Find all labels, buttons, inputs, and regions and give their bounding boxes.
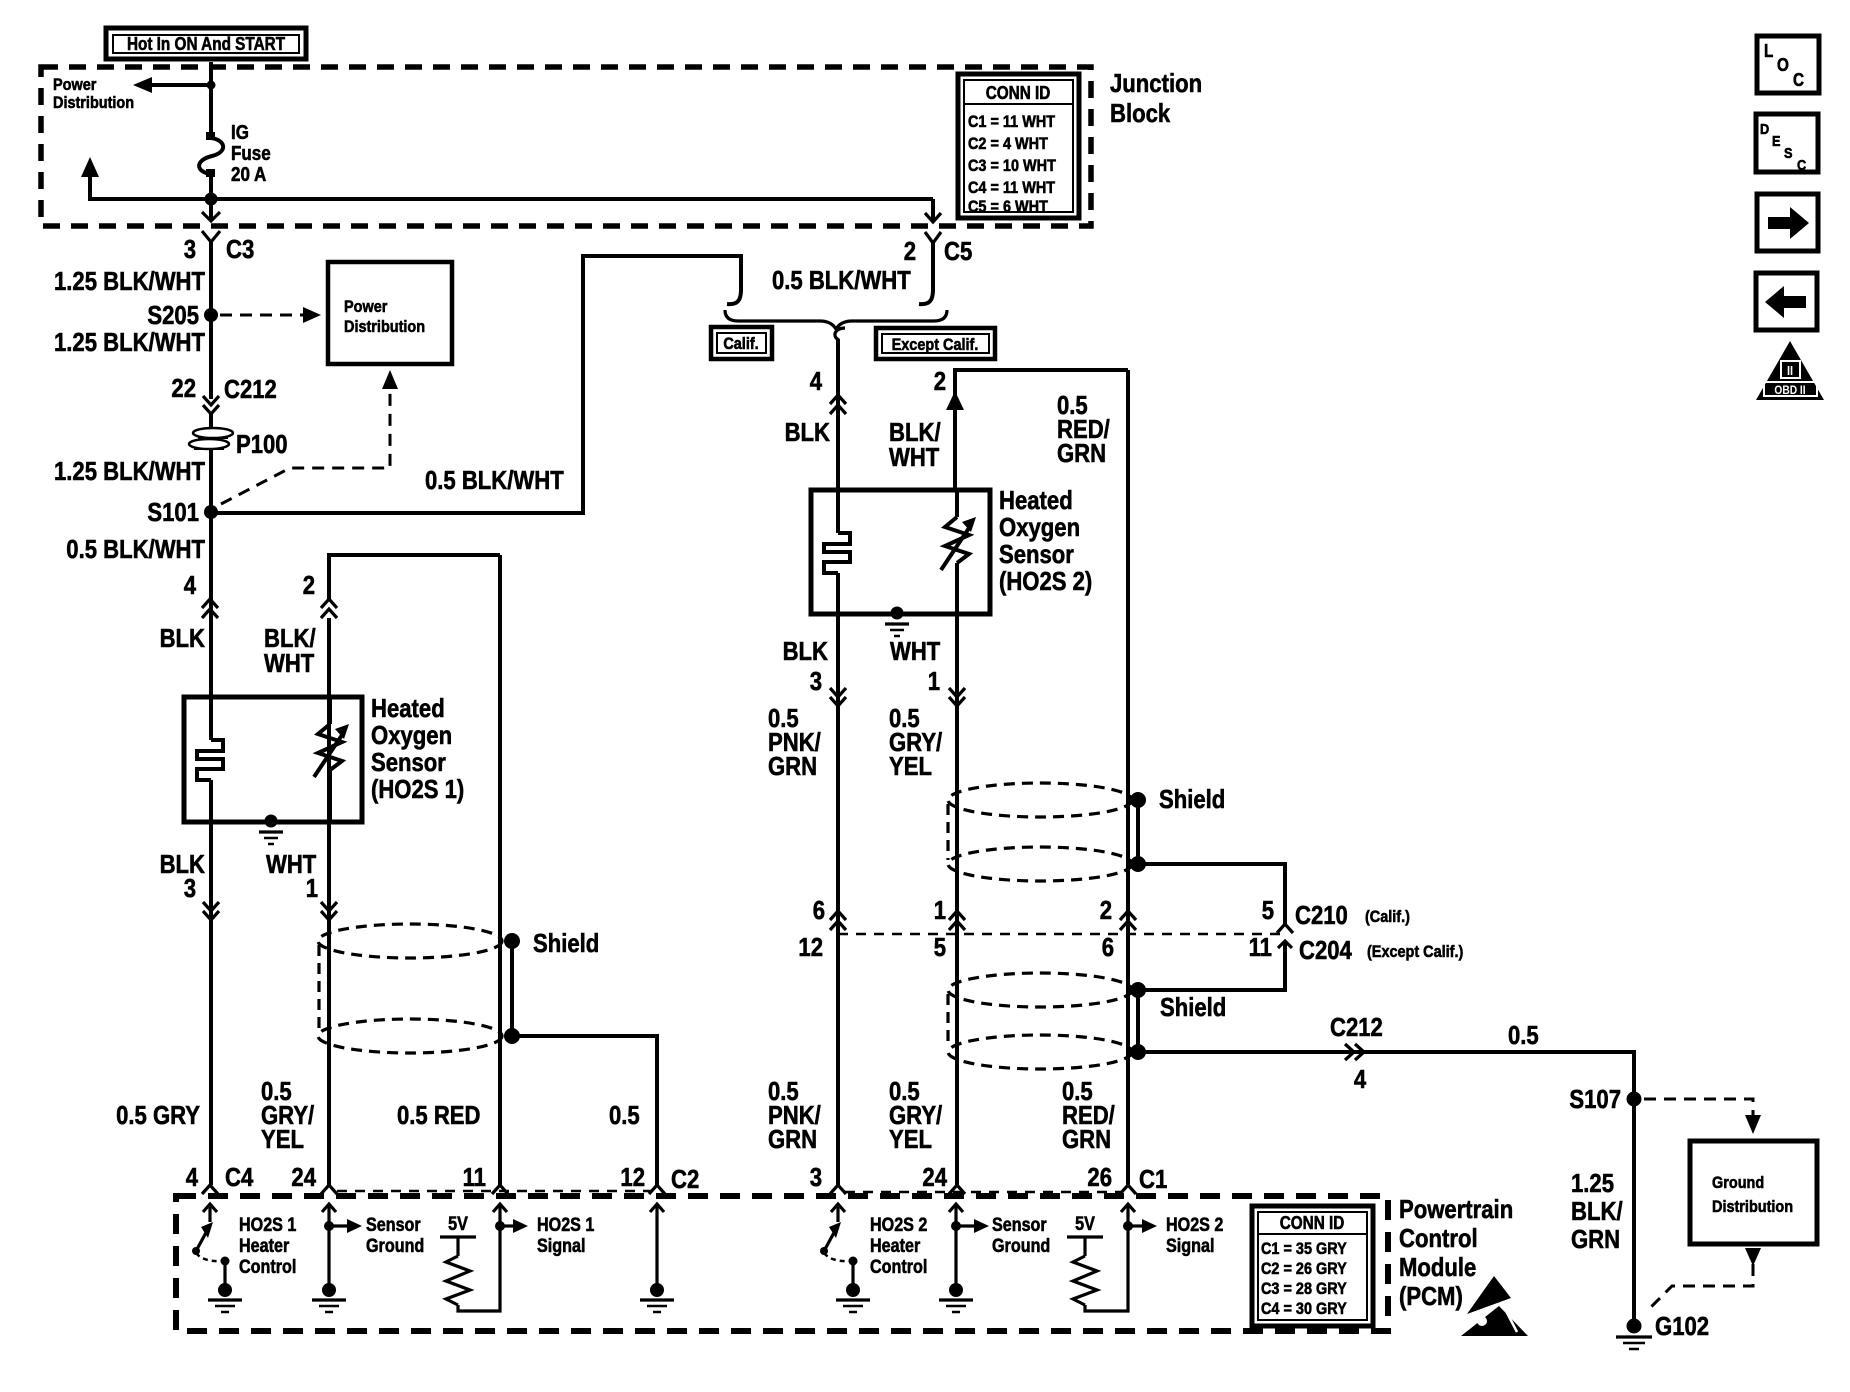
- svg-text:S: S: [1784, 145, 1793, 162]
- dashed reference path S101 up to Power Distribution box: [221, 388, 390, 504]
- svg-text:Except Calif.: Except Calif.: [892, 335, 979, 354]
- shield cylinder (HO2S1): [318, 924, 502, 958]
- sensor internal ground (HO2S1): [265, 815, 278, 828]
- svg-text:Sensor: Sensor: [371, 747, 446, 777]
- svg-text:1: 1: [934, 895, 946, 925]
- svg-text:Shield: Shield: [1159, 784, 1225, 814]
- svg-text:O: O: [1777, 55, 1789, 75]
- icon back arrow: [1756, 273, 1817, 330]
- connector C5 pin 2: [925, 232, 941, 243]
- svg-text:GRN: GRN: [768, 1124, 817, 1154]
- svg-text:WHT: WHT: [889, 442, 939, 472]
- svg-text:BLK: BLK: [783, 636, 829, 666]
- svg-text:WHT: WHT: [890, 636, 940, 666]
- svg-text:HO2S 1: HO2S 1: [537, 1215, 595, 1236]
- svg-text:Control: Control: [239, 1257, 296, 1278]
- svg-text:0.5: 0.5: [609, 1100, 640, 1130]
- ESD sensitive symbol: [1467, 1276, 1511, 1314]
- svg-text:GRN: GRN: [1057, 438, 1106, 468]
- icon LOC: [1757, 36, 1819, 93]
- svg-text:Ground: Ground: [1712, 1173, 1764, 1192]
- svg-text:24: 24: [291, 1162, 316, 1192]
- svg-text:Hot In ON And START: Hot In ON And START: [127, 34, 285, 54]
- sensor internal ground (HO2S2): [891, 607, 904, 620]
- shield drain dots and link (HO2S2 lower): [1130, 982, 1146, 998]
- splice S101: [204, 505, 218, 519]
- ground (HO2S1 heater control): [218, 1283, 232, 1297]
- svg-text:HO2S 2: HO2S 2: [1166, 1215, 1223, 1236]
- sensor box HO2S1: [184, 697, 362, 822]
- svg-text:GRN: GRN: [1062, 1124, 1111, 1154]
- wire HO2S1 pin3 down to PCM pin 4: [209, 822, 213, 1185]
- svg-text:0.5: 0.5: [1508, 1020, 1539, 1050]
- svg-text:C212: C212: [224, 374, 277, 404]
- wire brace to HO2S2 pin 4: [836, 339, 840, 490]
- svg-text:Heated: Heated: [371, 693, 445, 723]
- svg-text:Ground: Ground: [366, 1236, 424, 1257]
- svg-text:C204: C204: [1299, 935, 1352, 965]
- svg-text:20 A: 20 A: [231, 164, 266, 186]
- svg-text:1.25 BLK/WHT: 1.25 BLK/WHT: [54, 456, 205, 486]
- svg-text:Control: Control: [1399, 1223, 1478, 1253]
- svg-text:5: 5: [934, 932, 946, 962]
- switch HO2S2 heater control: [824, 1229, 836, 1251]
- splice S107: [1627, 1092, 1642, 1107]
- svg-text:C5 = 6 WHT: C5 = 6 WHT: [968, 197, 1048, 216]
- svg-text:GRN: GRN: [1571, 1224, 1620, 1254]
- svg-text:22: 22: [171, 373, 196, 403]
- svg-text:Sensor: Sensor: [992, 1215, 1047, 1236]
- svg-text:Heater: Heater: [239, 1236, 290, 1257]
- svg-text:C1: C1: [1139, 1164, 1167, 1194]
- svg-text:Distribution: Distribution: [344, 317, 425, 336]
- svg-text:Junction: Junction: [1110, 68, 1202, 98]
- svg-text:C1 = 11 WHT: C1 = 11 WHT: [968, 112, 1056, 131]
- junction block dashed boundary: [41, 67, 1091, 226]
- dashed reference S107 to Ground Distribution: [1644, 1099, 1753, 1116]
- svg-text:Calif.: Calif.: [723, 334, 758, 353]
- svg-text:Sensor: Sensor: [999, 539, 1074, 569]
- wire 0.5 RED run down to PCM pin 11: [498, 555, 502, 1185]
- box Ground Distribution: [1690, 1141, 1817, 1244]
- internal up arrows below PCM boundary: [203, 1204, 1135, 1284]
- svg-text:(PCM): (PCM): [1399, 1281, 1463, 1311]
- svg-text:Ground: Ground: [992, 1236, 1050, 1257]
- svg-text:GRN: GRN: [768, 751, 817, 781]
- svg-text:2: 2: [904, 236, 916, 266]
- svg-text:3: 3: [810, 1162, 822, 1192]
- wire C204 pin 11 down to lower shield: [1278, 941, 1292, 948]
- svg-text:Powertrain: Powertrain: [1399, 1194, 1513, 1224]
- svg-text:Heater: Heater: [870, 1236, 921, 1257]
- svg-text:1.25 BLK/WHT: 1.25 BLK/WHT: [54, 266, 205, 296]
- arrow to Power Distribution (left): [152, 83, 211, 87]
- svg-text:BLK: BLK: [785, 417, 831, 447]
- heater element (HO2S1): [209, 697, 213, 740]
- svg-text:BLK: BLK: [160, 623, 206, 653]
- shield cylinder (HO2S2 upper): [948, 783, 1132, 817]
- junction block exit arrow to C5: [931, 199, 935, 221]
- svg-text:6: 6: [1102, 932, 1114, 962]
- svg-text:Power: Power: [344, 297, 388, 316]
- svg-text:C210: C210: [1295, 900, 1348, 930]
- dashed reference arrow S205 to Power Distribution: [220, 314, 303, 317]
- shield drain dots and link (HO2S2 upper): [1130, 792, 1146, 808]
- wire HO2S2 pin3 down: [836, 614, 840, 1185]
- svg-text:Heated: Heated: [999, 485, 1073, 515]
- svg-text:12: 12: [798, 932, 823, 962]
- svg-text:Shield: Shield: [533, 928, 599, 958]
- svg-text:YEL: YEL: [889, 1124, 932, 1154]
- svg-text:5V: 5V: [1075, 1214, 1095, 1235]
- sensor box HO2S2: [811, 490, 990, 614]
- svg-text:Control: Control: [870, 1257, 927, 1278]
- svg-text:4: 4: [810, 366, 823, 396]
- svg-text:1.25 BLK/WHT: 1.25 BLK/WHT: [54, 327, 205, 357]
- svg-text:12: 12: [620, 1162, 645, 1192]
- svg-text:CONN ID: CONN ID: [1280, 1213, 1345, 1233]
- svg-text:YEL: YEL: [261, 1124, 304, 1154]
- svg-text:Shield: Shield: [1160, 992, 1226, 1022]
- svg-text:4: 4: [186, 1162, 199, 1192]
- svg-text:1.25: 1.25: [1571, 1168, 1614, 1198]
- svg-text:3: 3: [184, 234, 196, 264]
- wire from Hot tag down to fuse: [209, 62, 213, 136]
- wire shield to C210 pin 5: [1138, 864, 1285, 924]
- svg-text:Sensor: Sensor: [366, 1215, 421, 1236]
- wire loop HO2S1 pin2 over to 0.5 RED run: [329, 555, 500, 600]
- svg-text:C4 = 30 GRY: C4 = 30 GRY: [1261, 1299, 1347, 1318]
- svg-text:Block: Block: [1110, 98, 1171, 128]
- svg-text:24: 24: [922, 1162, 947, 1192]
- wire shield drain to S107: [1138, 1052, 1634, 1326]
- junction dot at fuse output: [205, 193, 218, 206]
- svg-text:4: 4: [1354, 1064, 1367, 1094]
- up arrow stub (power distribution feed): [81, 157, 99, 177]
- svg-text:3: 3: [184, 873, 196, 903]
- svg-text:0.5 RED: 0.5 RED: [397, 1100, 481, 1130]
- svg-text:OBD II: OBD II: [1774, 383, 1805, 397]
- svg-text:D: D: [1760, 121, 1769, 138]
- svg-text:5: 5: [1262, 895, 1274, 925]
- svg-text:HO2S 2: HO2S 2: [870, 1215, 927, 1236]
- wire P100 to S101: [209, 450, 213, 512]
- svg-text:5V: 5V: [448, 1214, 468, 1235]
- svg-text:2: 2: [1100, 895, 1112, 925]
- svg-text:S107: S107: [1569, 1084, 1621, 1114]
- svg-text:C5: C5: [944, 236, 972, 266]
- svg-text:BLK/: BLK/: [1571, 1196, 1623, 1226]
- splice S205: [204, 308, 218, 322]
- wire Except Calif corner to RED/GRN run: [955, 370, 1128, 412]
- dashed reference Ground Distribution to G102: [1745, 1248, 1761, 1266]
- svg-text:P100: P100: [236, 429, 288, 459]
- connector row C210/C204 dashed line: [838, 933, 1288, 936]
- svg-text:YEL: YEL: [889, 751, 932, 781]
- svg-text:WHT: WHT: [264, 648, 314, 678]
- svg-text:(Calif.): (Calif.): [1365, 907, 1410, 926]
- wire down to C3 with exit arrow: [209, 199, 213, 220]
- svg-text:4: 4: [184, 570, 197, 600]
- svg-text:C2 = 4 WHT: C2 = 4 WHT: [968, 134, 1048, 153]
- fuse IG Fuse 20 A: [206, 132, 215, 140]
- variant tag Calif.: [711, 327, 772, 359]
- svg-text:Power: Power: [53, 75, 97, 94]
- PCM connector face dashed lines: [337, 1190, 651, 1193]
- connector C3 pin 3: [202, 231, 220, 242]
- svg-text:11: 11: [1249, 932, 1272, 962]
- svg-text:C4 = 11 WHT: C4 = 11 WHT: [968, 178, 1056, 197]
- svg-text:(HO2S 2): (HO2S 2): [999, 566, 1092, 596]
- wire S101 branch right and up over to Calif hook: [211, 256, 741, 513]
- svg-text:3: 3: [810, 666, 822, 696]
- svg-text:C3 = 28 GRY: C3 = 28 GRY: [1261, 1279, 1347, 1298]
- sensor ground branch (pin 24 left): [324, 1221, 334, 1231]
- svg-text:0.5 BLK/WHT: 0.5 BLK/WHT: [425, 465, 564, 495]
- svg-text:(HO2S 1): (HO2S 1): [371, 774, 464, 804]
- icon OBD II triangle: [1756, 341, 1824, 400]
- PCM dashed boundary: [176, 1196, 1388, 1331]
- svg-text:Signal: Signal: [537, 1236, 586, 1257]
- svg-text:(Except Calif.): (Except Calif.): [1367, 942, 1463, 961]
- svg-text:Distribution: Distribution: [53, 93, 134, 112]
- svg-text:Fuse: Fuse: [231, 143, 271, 165]
- svg-text:C212: C212: [1330, 1012, 1383, 1042]
- svg-text:0.5 BLK/WHT: 0.5 BLK/WHT: [66, 534, 205, 564]
- svg-text:L: L: [1764, 41, 1773, 61]
- svg-text:Signal: Signal: [1166, 1236, 1215, 1257]
- squiggle splice below brace: [835, 328, 845, 340]
- box Power Distribution: [328, 262, 452, 364]
- svg-text:C4: C4: [225, 1162, 254, 1192]
- connector forks at PCM boundary: [202, 1185, 218, 1194]
- switch HO2S1 heater control: [196, 1229, 208, 1251]
- svg-text:IG: IG: [231, 122, 249, 144]
- svg-text:HO2S 1: HO2S 1: [239, 1215, 297, 1236]
- svg-text:C2: C2: [671, 1164, 699, 1194]
- ground (pin 12): [650, 1283, 664, 1297]
- svg-text:0.5 GRY: 0.5 GRY: [116, 1100, 200, 1130]
- svg-text:Oxygen: Oxygen: [999, 512, 1080, 542]
- svg-text:26: 26: [1087, 1162, 1112, 1192]
- svg-text:11: 11: [463, 1162, 486, 1192]
- variant tag Except Calif.: [876, 328, 995, 359]
- CONN ID table (PCM): [1252, 1206, 1373, 1326]
- grommet P100: [193, 428, 233, 438]
- svg-text:1: 1: [306, 873, 318, 903]
- svg-text:6: 6: [813, 895, 825, 925]
- CONN ID table (junction block): [958, 74, 1079, 218]
- svg-text:G102: G102: [1655, 1311, 1709, 1341]
- svg-text:C: C: [1797, 157, 1806, 174]
- power source tag "Hot In ON And START": [106, 28, 306, 59]
- svg-text:2: 2: [934, 366, 946, 396]
- svg-text:S205: S205: [147, 300, 199, 330]
- sensing element zigzag (HO2S1): [328, 697, 332, 724]
- heater element (HO2S2): [836, 490, 840, 533]
- bus wire across junction block: [88, 197, 933, 201]
- svg-text:0.5 BLK/WHT: 0.5 BLK/WHT: [772, 265, 911, 295]
- wire HO2S2 pin1 down: [955, 614, 959, 1185]
- wire RED/GRN long run down to PCM pin 26: [1126, 370, 1130, 1185]
- sensing element zigzag (HO2S2): [955, 490, 959, 517]
- icon DESC: [1756, 114, 1818, 174]
- svg-text:E: E: [1772, 133, 1781, 150]
- svg-text:C3 = 10 WHT: C3 = 10 WHT: [968, 156, 1056, 175]
- svg-text:Distribution: Distribution: [1712, 1197, 1793, 1216]
- svg-text:2: 2: [303, 570, 315, 600]
- svg-text:S101: S101: [147, 497, 199, 527]
- svg-text:C1 = 35 GRY: C1 = 35 GRY: [1261, 1239, 1347, 1258]
- shield drain dots and link (HO2S1): [504, 933, 520, 949]
- wire HO2S1 pin1 down to PCM pin 24: [327, 618, 331, 1185]
- wire fuse to bus: [209, 173, 213, 199]
- shield cylinder (HO2S2 lower): [948, 973, 1132, 1007]
- brace merging Calif / Except Calif feeds: [725, 310, 947, 329]
- wire shield drain to PCM pin 12: [512, 1036, 657, 1185]
- sensor ground branch (pin 24 right): [951, 1221, 961, 1231]
- icon forward arrow: [1757, 194, 1818, 251]
- svg-text:Oxygen: Oxygen: [371, 720, 452, 750]
- svg-text:BLK: BLK: [160, 849, 206, 879]
- svg-text:C3: C3: [226, 234, 254, 264]
- wire S205 down: [209, 315, 213, 399]
- svg-text:1: 1: [928, 666, 940, 696]
- svg-text:C2 = 26 GRY: C2 = 26 GRY: [1261, 1259, 1347, 1278]
- svg-text:Module: Module: [1399, 1252, 1476, 1282]
- wire S101 down to HO2S1: [209, 512, 213, 700]
- svg-text:CONN ID: CONN ID: [986, 83, 1051, 103]
- svg-text:II: II: [1787, 363, 1793, 378]
- svg-text:C: C: [1793, 70, 1804, 90]
- ground G102: [1627, 1319, 1642, 1334]
